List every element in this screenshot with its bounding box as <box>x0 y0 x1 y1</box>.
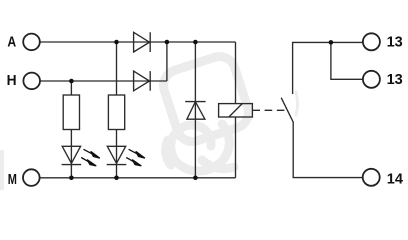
relay coil K1 <box>219 104 253 117</box>
diode D2 <box>134 71 151 91</box>
LED LED1 <box>62 146 82 164</box>
diode D1 <box>134 32 151 52</box>
svg-text:13: 13 <box>387 34 403 50</box>
wire A rail <box>40 41 236 43</box>
wire column R2/LED2 <box>116 42 118 178</box>
switch contact 13-14 <box>293 42 363 94</box>
terminal H <box>23 73 40 90</box>
svg-text:H: H <box>7 72 17 88</box>
wire M rail <box>40 177 236 179</box>
terminal A <box>23 34 40 51</box>
junction on A rail at flyback column <box>193 40 198 45</box>
LED2 emission arrows <box>126 149 145 166</box>
wire coil top lead <box>235 42 237 104</box>
junction on M rail at LED2 <box>114 176 119 181</box>
svg-text:13: 13 <box>387 72 403 88</box>
watermark marks right <box>296 92 298 115</box>
dashed actuation link <box>252 109 284 111</box>
terminal 13 lower <box>363 71 380 88</box>
wire coil bottom lead <box>235 117 237 178</box>
junction on M rail at flyback column <box>193 176 198 181</box>
junction top right branch <box>329 40 334 45</box>
terminal 13 upper <box>363 33 380 50</box>
resistor R1 <box>63 95 79 130</box>
LED1 emission arrows <box>81 149 100 166</box>
LED LED2 <box>107 146 127 164</box>
diode D3 flyback <box>185 102 205 120</box>
wire branch to lower 13 <box>331 42 363 79</box>
svg-text:M: M <box>8 171 17 188</box>
watermark streak left edge <box>0 150 4 190</box>
wire column flyback diode <box>194 42 196 178</box>
wire H rail <box>40 80 167 82</box>
junction on M rail at LED1 <box>69 176 74 181</box>
junction on H rail at R1 column <box>69 79 74 84</box>
wire column R1/LED1 <box>70 81 72 178</box>
junction on A rail at D2 riser <box>165 40 170 45</box>
resistor R2 <box>108 95 124 130</box>
terminal M <box>23 169 40 186</box>
watermark logo <box>159 52 252 171</box>
terminal 14 <box>363 169 380 186</box>
junction on A rail at R2 column <box>114 40 119 45</box>
svg-text:14: 14 <box>387 171 403 187</box>
wire riser from D2 to A rail <box>166 42 168 81</box>
svg-text:A: A <box>7 33 16 49</box>
